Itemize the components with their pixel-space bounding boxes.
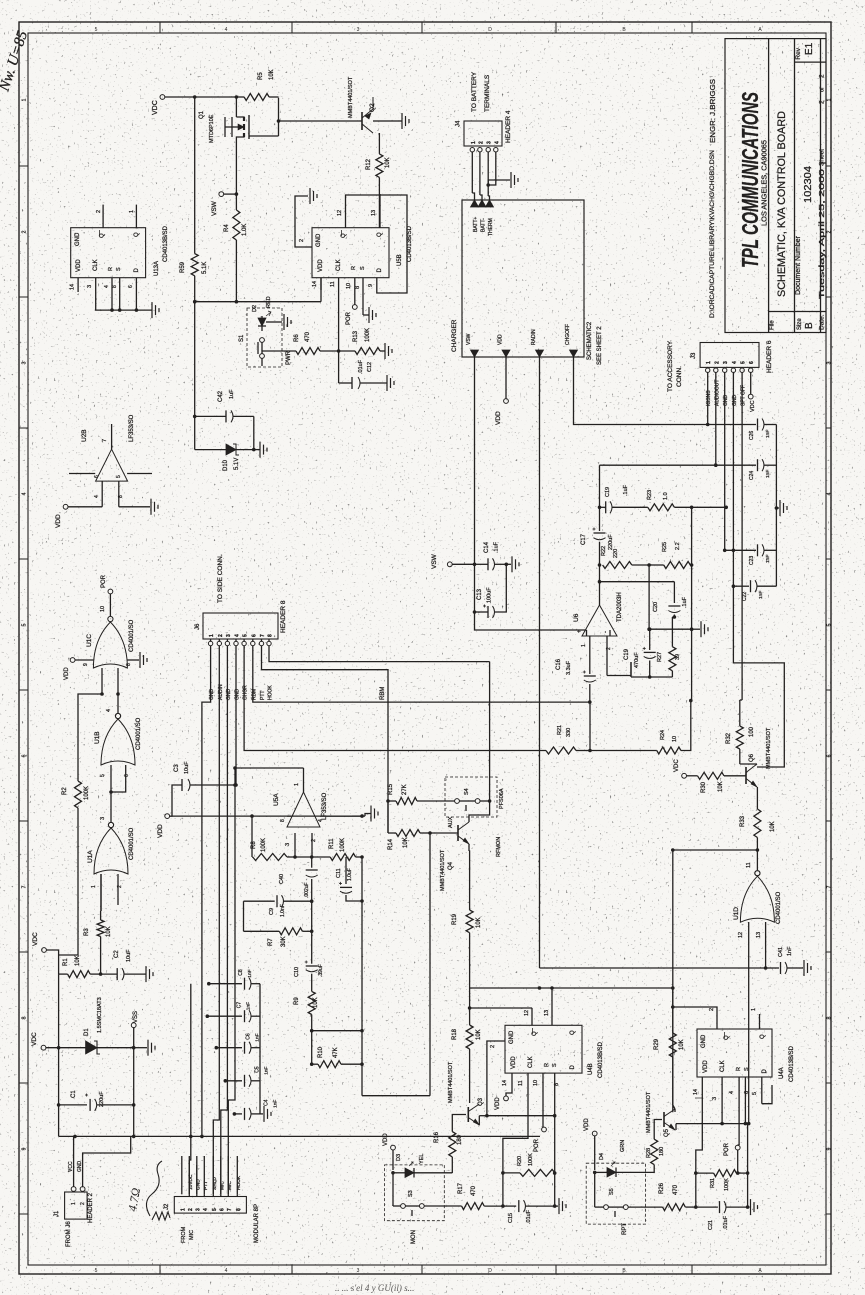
svg-text:LF353/SO: LF353/SO (129, 414, 135, 442)
wire (312, 1029, 364, 1033)
node VDD under U4B (495, 1088, 512, 1110)
svg-text:CD4001/SO: CD4001/SO (136, 717, 142, 750)
svg-text:VSW: VSW (211, 200, 218, 216)
svg-text:TERMINALS: TERMINALS (484, 74, 491, 112)
svg-text:R29: R29 (654, 1038, 660, 1050)
resistor R2 (62, 781, 90, 808)
wire J6 pin2 bus (213, 646, 219, 1195)
title text LOS ANGELES CA90065 (760, 140, 769, 226)
svg-text:3: 3 (87, 285, 93, 288)
svg-text:R12: R12 (366, 158, 372, 170)
wire (360, 857, 364, 1031)
wire Q5 emitter line (676, 1124, 749, 1130)
svg-text:7: 7 (102, 439, 108, 442)
connector J2 MODULAR 8P (164, 1197, 260, 1244)
resistor R7 (244, 928, 314, 947)
svg-text:Rev: Rev (795, 47, 802, 59)
svg-text:THERM: THERM (488, 218, 494, 236)
wire (83, 1136, 131, 1186)
ground (363, 300, 376, 323)
svg-text:VDD: VDD (703, 1060, 709, 1073)
ground (119, 499, 158, 515)
wire U6 output (598, 465, 602, 605)
capacitor C24 1nF (716, 459, 777, 480)
svg-text:R15: R15 (388, 783, 394, 795)
svg-text:S4: S4 (464, 788, 470, 795)
wire J6 pin8 to S4 column (269, 646, 490, 662)
node POR (346, 295, 357, 325)
svg-text:1nF: 1nF (765, 430, 771, 438)
resistor R32 100 (726, 723, 757, 764)
node VDD above S5 (584, 1118, 597, 1170)
svg-text:R27: R27 (657, 652, 663, 662)
resistor R16 180 (434, 1131, 463, 1173)
IC U4B CD4013B/SD (505, 1025, 604, 1078)
switch S5 RPT dashed box (586, 1163, 645, 1235)
J3 pins (706, 361, 756, 372)
resistor R21 330 (546, 725, 590, 754)
svg-text:1nF: 1nF (245, 1002, 251, 1010)
capacitor C41 1nF (766, 946, 803, 974)
capacitor C42 (195, 389, 254, 423)
capacitor C22 1nF (733, 580, 776, 601)
svg-text:1uF: 1uF (229, 389, 235, 399)
wire Q3 base to R16 (452, 1115, 466, 1132)
svg-text:C4: C4 (263, 1099, 269, 1106)
svg-text:C24: C24 (749, 471, 755, 480)
svg-text:7: 7 (22, 885, 28, 888)
ground (748, 1199, 758, 1215)
svg-text:Tuesday, April 25, 2000: Tuesday, April 25, 2000 (819, 169, 826, 299)
capacitor C19 470uF (624, 627, 672, 677)
svg-text:3.3uF: 3.3uF (566, 660, 572, 675)
svg-text:10K: 10K (403, 837, 409, 848)
wire (195, 416, 256, 451)
U5B pin 13 stub (371, 194, 380, 228)
svg-text:POR: POR (534, 1138, 540, 1152)
svg-text:C6: C6 (245, 1033, 251, 1040)
handwritten note bottom edge (335, 1283, 414, 1293)
svg-text:R32: R32 (726, 732, 732, 744)
svg-text:RPT: RPT (622, 1223, 628, 1235)
svg-text:BATT+: BATT+ (473, 217, 479, 232)
svg-text:13: 13 (371, 210, 377, 216)
title text Sheet row (819, 74, 826, 166)
svg-text:8: 8 (355, 286, 361, 289)
svg-text:R26: R26 (659, 1182, 665, 1194)
svg-text:C19: C19 (605, 487, 611, 497)
svg-text:12: 12 (524, 1010, 530, 1016)
svg-text:9: 9 (368, 284, 374, 287)
svg-text:J4: J4 (456, 120, 462, 127)
switch S1 contacts (258, 338, 264, 359)
svg-text:R8: R8 (251, 841, 257, 849)
U4A pin 3 stub (712, 1077, 724, 1125)
svg-text:100K: 100K (365, 328, 371, 342)
U13A pins 4 6 8 to ground bus (95, 278, 152, 312)
svg-text:R25: R25 (662, 542, 668, 552)
wire right cap common (775, 425, 779, 587)
wire U1D pin12 down (747, 968, 751, 1125)
node VDD above S3 (383, 1133, 395, 1170)
capacitor C1 (59, 1090, 134, 1111)
svg-text:5: 5 (741, 361, 747, 364)
IC U4A CD4013B/SD (697, 1029, 795, 1082)
resistor R9 (294, 991, 319, 1064)
svg-text:U1C: U1C (86, 634, 93, 647)
wire long 968 line (540, 967, 766, 969)
svg-text:4: 4 (106, 709, 112, 712)
resistor R5 (236, 69, 278, 100)
svg-text:330: 330 (566, 728, 572, 737)
resistor R4 (224, 194, 248, 262)
engineer name (710, 79, 717, 143)
LED D2 RED (252, 296, 272, 331)
svg-text:MIC: MIC (189, 1230, 195, 1240)
wire U1D inputs (738, 922, 767, 970)
U5B pin 8 stub (355, 278, 363, 300)
svg-text:GND: GND (75, 232, 81, 246)
svg-text:14: 14 (693, 1089, 699, 1095)
resistor R26 470 (628, 1182, 697, 1210)
svg-text:VDC: VDC (31, 1032, 38, 1046)
svg-text:.002uF: .002uF (304, 882, 310, 898)
svg-text:1: 1 (581, 644, 587, 647)
wire (311, 901, 313, 964)
svg-text:C21: C21 (708, 1220, 714, 1230)
svg-text:3: 3 (712, 1097, 718, 1100)
title text File (770, 320, 776, 330)
svg-text:R: R (351, 266, 357, 270)
svg-text:R24: R24 (660, 730, 666, 740)
J2 pin stubs (182, 1156, 238, 1194)
svg-text:4: 4 (203, 1208, 209, 1211)
wire (488, 152, 496, 185)
capacitor C17 220uF (581, 528, 614, 551)
svg-text:MMBT4401/SOT: MMBT4401/SOT (348, 76, 354, 118)
wire U6 output to AUDIOOUT (600, 463, 718, 467)
switch S3 MON dashed box (385, 1165, 445, 1244)
resistor R10 (310, 1046, 364, 1067)
node VDC terminal (152, 95, 165, 115)
svg-text:180: 180 (659, 1147, 665, 1156)
handwritten 4.7 ohm note (125, 1161, 170, 1220)
svg-text:D4: D4 (599, 1153, 605, 1160)
op-amp U5A LF353/SO (273, 768, 328, 827)
title block outer box (725, 39, 826, 333)
ground (776, 500, 787, 516)
svg-text:R17: R17 (458, 1182, 464, 1194)
svg-text:R59: R59 (180, 261, 186, 273)
resistor R29 10K (654, 988, 685, 1105)
svg-text:HEADER 6: HEADER 6 (766, 340, 773, 373)
svg-text:HEADER 4: HEADER 4 (505, 110, 512, 143)
svg-text:Q: Q (724, 1035, 730, 1040)
svg-text:1: 1 (71, 1202, 77, 1205)
capacitor C12 (339, 359, 387, 389)
svg-text:CD4013B/SD: CD4013B/SD (598, 1041, 604, 1078)
svg-text:Q3: Q3 (478, 1097, 484, 1106)
wire (311, 845, 313, 857)
wire (386, 799, 390, 833)
svg-text:VSW: VSW (466, 333, 472, 345)
wire J6 pin6 line (253, 646, 590, 702)
node VDD under charger (495, 357, 508, 425)
svg-text:4: 4 (318, 819, 324, 822)
svg-text:4: 4 (225, 1268, 228, 1274)
svg-text:POR: POR (101, 574, 107, 588)
ground (488, 172, 518, 188)
svg-text:C23: C23 (749, 556, 755, 565)
svg-text:4: 4 (235, 634, 241, 637)
svg-text:S3: S3 (408, 1190, 414, 1197)
U13A pin 2 stub (96, 205, 103, 228)
op-amp U2B LF353/SO (81, 414, 135, 481)
svg-text:Sheet: Sheet (819, 149, 826, 166)
svg-text:6: 6 (124, 774, 130, 777)
NOR gate U1B CD4001/SO (94, 709, 142, 765)
svg-text:2: 2 (311, 839, 317, 842)
node VDC terminal (674, 759, 686, 779)
svg-text:4: 4 (827, 492, 833, 495)
wire (165, 95, 238, 99)
svg-text:Q: Q (100, 233, 106, 238)
svg-text:C16: C16 (556, 658, 562, 670)
svg-text:10K: 10K (770, 821, 776, 832)
svg-text:2: 2 (827, 230, 833, 233)
resistor R25 2.2 (649, 542, 693, 569)
transistor Q1 MTD6P10E (199, 97, 279, 194)
J2 pins (180, 1194, 242, 1211)
svg-text:C14: C14 (484, 541, 490, 553)
svg-text:11: 11 (330, 281, 336, 287)
svg-text:6: 6 (22, 754, 28, 757)
svg-text:9: 9 (83, 663, 89, 666)
J4 pins (470, 148, 498, 152)
node VDC at J3 pin6 (748, 372, 756, 412)
capacitor C4 1nF (233, 1099, 279, 1120)
svg-text:47K: 47K (333, 1047, 339, 1058)
ground (555, 1198, 566, 1214)
svg-text:R23: R23 (647, 490, 653, 500)
capacitor C21 .01uF (696, 1201, 750, 1230)
svg-text:10: 10 (100, 606, 106, 612)
svg-text:C41: C41 (778, 947, 784, 957)
J6 pin labels (209, 684, 273, 700)
svg-text:VDC: VDC (32, 932, 39, 946)
wire VDC bus (194, 97, 196, 254)
svg-text:R11: R11 (329, 838, 335, 849)
svg-text:GND: GND (509, 1030, 515, 1044)
wire J3 pin4 (732, 372, 785, 767)
charger port BATT- (478, 200, 487, 232)
svg-text:6: 6 (251, 634, 257, 637)
svg-text:180: 180 (457, 1134, 463, 1145)
svg-text:VDD: VDD (584, 1118, 590, 1131)
svg-text:C26: C26 (749, 431, 755, 440)
svg-text:U4B: U4B (588, 1063, 594, 1075)
svg-text:12: 12 (738, 932, 744, 938)
ground (146, 966, 153, 982)
wire (607, 662, 631, 676)
U5B pin 9 stub (368, 278, 377, 289)
svg-text:CD4013B/SD: CD4013B/SD (407, 225, 413, 262)
svg-text:R22: R22 (601, 546, 607, 556)
charger port BATT+ (471, 200, 480, 232)
svg-text:VDD: VDD (383, 1133, 389, 1146)
svg-text:6: 6 (219, 1208, 225, 1211)
svg-text:Size: Size (797, 318, 803, 330)
ground (804, 960, 811, 976)
connector J1 HEADER 2 (54, 1192, 94, 1247)
ground (386, 113, 409, 129)
svg-text:Q4: Q4 (448, 861, 454, 870)
wire (691, 507, 693, 700)
svg-text:12: 12 (337, 210, 343, 216)
wire J6 pin1 (202, 646, 211, 1137)
wire CLK net (501, 1088, 528, 1208)
op-amp U6 TDA2003H (573, 592, 623, 636)
U4A pin 1 stub (751, 1008, 760, 1029)
svg-text:4: 4 (22, 492, 28, 495)
svg-text:RBM: RBM (380, 687, 386, 700)
svg-text:5: 5 (22, 623, 28, 626)
node VDC terminal (32, 932, 59, 974)
svg-text:4: 4 (729, 1091, 735, 1094)
title text Size B (797, 318, 815, 330)
svg-text:2.2: 2.2 (675, 542, 681, 550)
J1 pins (68, 1161, 85, 1193)
svg-text:1nF: 1nF (765, 470, 771, 478)
svg-text:VSW: VSW (431, 553, 438, 569)
svg-text:CLK: CLK (93, 259, 99, 271)
svg-text:10: 10 (533, 1080, 539, 1086)
wire (73, 1136, 75, 1186)
U4A pin 6 stub (744, 1077, 750, 1125)
svg-text:R4: R4 (224, 224, 230, 232)
U4A pin 4 stub (729, 1077, 739, 1145)
svg-text:VDD: VDD (511, 1056, 517, 1069)
capacitor C6 1nF (215, 1033, 261, 1054)
svg-text:SCHEMATIC, KVA CONTROL BOARD: SCHEMATIC, KVA CONTROL BOARD (776, 111, 788, 297)
svg-text:Q6: Q6 (749, 753, 755, 762)
svg-text:AUX: AUX (448, 816, 454, 828)
svg-text:1nF: 1nF (787, 946, 793, 956)
U4B pin 2 stub (487, 1041, 505, 1048)
svg-text:D10: D10 (223, 459, 229, 471)
svg-text:YEL: YEL (419, 1154, 425, 1164)
node POR under U4B (534, 1088, 546, 1152)
U5B pin 12 stub (337, 205, 346, 228)
wire (262, 351, 296, 366)
svg-text:1: 1 (91, 885, 97, 888)
svg-text:S: S (360, 266, 366, 270)
svg-text:Document Number: Document Number (795, 235, 802, 295)
svg-text:14: 14 (70, 284, 76, 290)
ground (134, 1040, 155, 1056)
svg-text:5: 5 (752, 1092, 758, 1095)
svg-text:2: 2 (478, 141, 484, 144)
wire (485, 1041, 489, 1117)
svg-text:7: 7 (260, 634, 266, 637)
wire J6 pin3 bus (221, 646, 228, 1195)
svg-text:VDD: VDD (76, 259, 82, 272)
wire J3 pin5 (740, 372, 742, 723)
svg-text:C19: C19 (624, 648, 630, 660)
svg-text:3: 3 (357, 27, 360, 33)
connector J3 HEADER 6 (667, 340, 773, 392)
svg-text:MODULAR 8P: MODULAR 8P (254, 1204, 260, 1243)
wire CHGOFF line (574, 357, 710, 426)
svg-text:R14: R14 (388, 838, 394, 850)
switch S4 AUX dashed box (445, 777, 505, 828)
wire cap column common (260, 984, 263, 1114)
NOR gate U1C CD4001/SO (86, 616, 135, 668)
ground (264, 1106, 271, 1122)
transistor Q5 MMBT4401/SOT (646, 1091, 675, 1137)
svg-text:8: 8 (126, 663, 132, 666)
wire J6 pin5 line (244, 646, 546, 751)
svg-text:R28: R28 (646, 1148, 652, 1158)
svg-text:1nF: 1nF (765, 555, 771, 563)
capacitor C16 (556, 648, 596, 704)
svg-text:R6: R6 (294, 334, 300, 342)
svg-text:10: 10 (672, 736, 678, 742)
svg-text:102304: 102304 (802, 166, 814, 203)
svg-text:C10: C10 (294, 967, 300, 977)
svg-text:2: 2 (490, 1045, 496, 1048)
svg-text:220uF: 220uF (608, 534, 614, 550)
svg-text:C13: C13 (477, 588, 483, 600)
resistor R27 39 (657, 617, 681, 677)
svg-text:1: 1 (471, 141, 477, 144)
resistor R28 180 (646, 1139, 665, 1173)
svg-text:13: 13 (756, 932, 762, 938)
wire J6 pin4 bus (228, 646, 238, 1195)
switch S1 PWR dashed box (239, 308, 292, 367)
svg-text:D: D (488, 27, 492, 33)
svg-text:CHARGER: CHARGER (451, 319, 458, 352)
title text SCHEMATIC KVA CONTROL BOARD (776, 111, 788, 297)
svg-text:SEE SHEET 2: SEE SHEET 2 (597, 326, 603, 365)
wire bottom rail (59, 1135, 540, 1139)
svg-text:9: 9 (22, 1147, 28, 1150)
svg-text:.1uF: .1uF (682, 596, 688, 608)
wire U5A output top (233, 766, 303, 785)
svg-text:2: 2 (218, 634, 224, 637)
svg-text:U1A: U1A (87, 850, 94, 863)
svg-text:CD4013B/SD: CD4013B/SD (163, 225, 169, 262)
svg-text:2: 2 (22, 230, 28, 233)
wire (671, 1005, 717, 1014)
svg-text:11: 11 (518, 1080, 524, 1086)
svg-text:470: 470 (471, 1185, 477, 1196)
wire (550, 986, 554, 1008)
svg-text:2: 2 (709, 1008, 715, 1011)
IC U5B CD4013B/SD (312, 225, 413, 277)
resistor R31 100K (694, 1170, 749, 1191)
resistor R22 220 (601, 546, 651, 569)
svg-text:S: S (744, 1067, 750, 1071)
svg-text:5: 5 (212, 1208, 218, 1211)
svg-text:1.0uF: 1.0uF (347, 868, 353, 881)
svg-text:1: 1 (751, 1008, 757, 1011)
svg-text:CD4001/SO: CD4001/SO (129, 827, 135, 860)
title text E1 (804, 42, 815, 55)
wire (110, 792, 112, 822)
svg-text:470: 470 (305, 331, 311, 342)
charger port CHGOFF (565, 324, 578, 357)
